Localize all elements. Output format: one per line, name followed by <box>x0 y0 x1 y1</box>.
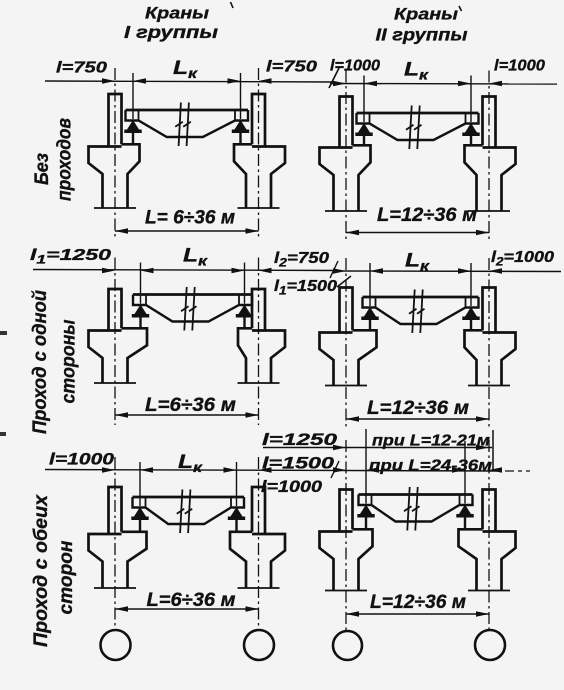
right crane wheel on rail (row1 group I) <box>232 120 249 144</box>
label Lk (row3 left) <box>178 451 203 475</box>
column axis grid circle D <box>475 630 505 660</box>
left crane wheel on rail (row1 group I) <box>124 120 141 144</box>
right stepped column (row1 group II) <box>465 97 516 212</box>
right crane rail extension line (row2 group I) <box>244 263 246 304</box>
row1 top dimension line, right diagram <box>330 83 557 86</box>
label L=12÷36 м (row2 right) <box>367 398 469 419</box>
crane bridge girder (row1 group II) <box>357 113 479 140</box>
svg-text:Проход с одной: Проход с одной <box>30 290 51 434</box>
left crane rail extension line (row1 group I) <box>132 73 134 119</box>
row3 top dimension line (also rule for l=1500 / при L=24-36м) <box>45 470 530 472</box>
right column centerline axis (row3 group II) <box>488 440 490 630</box>
svg-text:l=1000: l=1000 <box>494 58 545 75</box>
left stepped column (row2 group I) <box>89 289 148 383</box>
label l=750 (row1 left diagram, right side) <box>266 59 317 76</box>
row2 top dimension line, left diagram <box>33 270 336 271</box>
svg-text:Проход с обеих: Проход с обеих <box>31 494 52 647</box>
crane bridge girder (row1 group I) <box>126 110 249 137</box>
left crane rail extension line (row1 group II) <box>363 76 365 123</box>
label L=12÷36 м (row1 right) <box>377 205 477 226</box>
left stepped column (row2 group II) <box>320 288 377 386</box>
label Lk (row1 left) <box>173 57 198 81</box>
top dimension arrows (row1 group I) <box>102 78 272 84</box>
column header: Краны I группы <box>124 4 218 43</box>
svg-text:L=12÷36 м: L=12÷36 м <box>370 592 466 613</box>
top dimension arrows (row2 group II) <box>333 268 502 274</box>
top dimension arrows (row3 group I) <box>102 467 272 473</box>
left crane wheel on rail (row1 group II) <box>355 123 372 145</box>
row label: Без проходов (rotated) <box>32 118 76 201</box>
label L=6÷36 м (row2 left) <box>145 395 236 416</box>
svg-text:II группы: II группы <box>376 25 468 45</box>
label l=1000 (row1 right diagram, left side) <box>330 58 380 75</box>
right crane wheel on rail (row2 group II) <box>462 307 479 330</box>
label l2=750 (row2 left diagram, right side) <box>274 250 329 270</box>
svg-text:стороны: стороны <box>59 320 80 404</box>
left stepped column (row3 group II) <box>320 490 373 591</box>
right crane rail extension line (row3 group I) <box>236 462 238 506</box>
svg-text:l=750: l=750 <box>56 60 107 77</box>
label Lk (row2 right) <box>405 250 430 274</box>
right stepped column (row3 group I) <box>230 487 285 588</box>
left crane wheel on rail (row3 group I) <box>131 507 148 532</box>
right stepped column (row2 group I) <box>238 289 286 383</box>
svg-text:сторон: сторон <box>56 540 77 615</box>
slash tick between row3 diagrams <box>331 461 339 478</box>
svg-text:L=12÷36 м: L=12÷36 м <box>367 398 469 419</box>
leader tick after l1=1500 <box>337 276 351 287</box>
girder break symbol (row3 group I) <box>177 490 192 534</box>
right crane wheel on rail (row3 group II) <box>456 505 473 530</box>
svg-text:Краны: Краны <box>394 5 459 24</box>
left stepped column (row1 group II) <box>320 97 371 212</box>
column axis grid circle C <box>333 631 362 660</box>
svg-text:L= 6÷36 м: L= 6÷36 м <box>145 208 235 229</box>
left crane wheel on rail (row3 group II) <box>357 505 374 530</box>
left column centerline axis (row3 group II) <box>345 440 347 630</box>
top dimension arrows (row2 group I) <box>102 268 272 274</box>
right column centerline axis (row2 group I) <box>258 258 260 426</box>
span dimension line L (row1 group I) <box>115 228 259 234</box>
label L= 6÷36 м (row1 left) <box>145 208 235 229</box>
span dimension line L (row1 group II) <box>346 230 489 236</box>
slash tick between row1 diagrams <box>329 68 339 88</box>
svg-text:l=1250: l=1250 <box>262 431 338 449</box>
label при L=12-21м <box>372 433 491 450</box>
label l1=1500 (row2 right diagram, left side) <box>274 278 337 298</box>
label l=1500 (row3 table) <box>262 455 335 473</box>
slash tick between row2 diagrams <box>330 261 338 278</box>
svg-text:L=12÷36 м: L=12÷36 м <box>377 205 477 226</box>
svg-text:при L=12-21м: при L=12-21м <box>372 433 491 450</box>
right crane wheel on rail (row1 group II) <box>462 123 479 145</box>
left crane rail extension line (row2 group II) <box>369 263 371 306</box>
girder break symbol (row1 group I) <box>175 103 191 147</box>
right stepped column (row1 group I) <box>234 94 285 208</box>
span dimension line L (row2 group I) <box>115 412 259 418</box>
right column centerline axis (row2 group II) <box>488 258 490 429</box>
span dimension line L (row3 group I) <box>115 606 259 612</box>
label l=1250 (row3 table) <box>262 431 338 449</box>
left crane rail extension line (row3 group I) <box>139 462 141 506</box>
dimension rule for l=1250 / при L=12-21м <box>263 430 493 471</box>
svg-text:Без: Без <box>32 153 53 185</box>
label l1=1250 (row2 left) <box>30 247 111 267</box>
svg-text:l=1000: l=1000 <box>261 478 323 496</box>
label l=1000 (row3 left) <box>49 451 115 469</box>
crane bridge girder (row2 group I) <box>133 295 252 322</box>
right column centerline axis (row3 group I) <box>258 457 260 630</box>
scan speck marks near headers <box>231 2 462 11</box>
row label: Проход с одной стороны (rotated) <box>30 290 80 434</box>
top dimension arrows (row1 group II) <box>333 81 502 87</box>
column axis grid circle B <box>244 630 274 660</box>
crane bridge girder (row3 group II) <box>359 495 473 522</box>
right crane rail extension line (row1 group II) <box>470 76 472 123</box>
left crane rail extension line (row2 group I) <box>140 263 142 304</box>
label l=1000 (row1 right) <box>494 58 545 75</box>
svg-text:l=1000: l=1000 <box>330 58 380 75</box>
svg-text:l=1500: l=1500 <box>262 455 335 473</box>
girder break symbol (row2 group II) <box>409 290 425 334</box>
svg-text:l=1000: l=1000 <box>49 451 115 469</box>
right crane rail extension line (row1 group I) <box>240 73 242 119</box>
right stepped column (row2 group II) <box>465 288 516 386</box>
label Lk (row1 right) <box>404 59 429 83</box>
label l=1000 (row3 left diagram, right side) <box>261 478 323 496</box>
left column centerline axis (row1 group I) <box>114 68 116 237</box>
label Lk (row2 left) <box>183 245 208 269</box>
label при L=24-36м <box>369 458 493 475</box>
top dimension arrows (row3 group II) <box>333 467 502 473</box>
right stepped column (row3 group II) <box>459 490 516 591</box>
right crane wheel on rail (row3 group I) <box>228 507 245 532</box>
column axis grid circle A <box>101 630 131 660</box>
right crane wheel on rail (row2 group I) <box>236 305 253 329</box>
label L=6÷36 м (row3 left) <box>147 590 236 611</box>
svg-text:проходов: проходов <box>55 118 76 201</box>
left crane rail extension line (row3 group II) <box>365 429 367 504</box>
label l2=1000 (row2 right) <box>491 249 554 269</box>
row2 top dimension line, right diagram <box>334 270 561 273</box>
left stepped column (row3 group I) <box>89 487 147 588</box>
svg-text:L=6÷36 м: L=6÷36 м <box>145 395 236 416</box>
svg-text:L=6÷36 м: L=6÷36 м <box>147 590 236 611</box>
span dimension line L (row2 group II) <box>346 416 489 422</box>
left crane wheel on rail (row2 group I) <box>132 305 149 329</box>
row label: Проход с обеих сторон (rotated) <box>31 494 77 647</box>
span dimension line L (row3 group II) <box>346 611 489 617</box>
girder break symbol (row2 group I) <box>181 287 197 331</box>
left crane wheel on rail (row2 group II) <box>361 307 378 330</box>
right column centerline axis (row1 group I) <box>258 68 260 237</box>
left column centerline axis (row1 group II) <box>345 71 347 242</box>
svg-text:I группы: I группы <box>124 22 218 42</box>
svg-text:l=750: l=750 <box>266 59 317 76</box>
label L=12÷36 м (row3 right) <box>370 592 466 613</box>
girder break symbol (row3 group II) <box>404 487 420 531</box>
row1 top dimension line, left diagram <box>45 81 335 82</box>
left stepped column (row1 group I) <box>89 94 140 208</box>
right column centerline axis (row1 group II) <box>488 71 490 242</box>
svg-text:Краны: Краны <box>145 4 210 23</box>
svg-text:при L=24-36м: при L=24-36м <box>369 458 493 475</box>
crane bridge girder (row2 group II) <box>363 297 479 324</box>
left column centerline axis (row3 group I) <box>114 457 116 630</box>
crane bridge girder (row3 group I) <box>133 497 245 524</box>
right crane rail extension line (row2 group II) <box>470 263 472 306</box>
girder break symbol (row1 group II) <box>406 106 422 150</box>
label l=750 (row1 left) <box>56 60 107 77</box>
right crane rail extension line (row3 group II) <box>464 441 466 504</box>
left column centerline axis (row2 group I) <box>114 258 116 426</box>
scan specks at left edge <box>0 331 7 436</box>
left column centerline axis (row2 group II) <box>345 258 347 429</box>
column header: Краны II группы <box>376 5 468 45</box>
